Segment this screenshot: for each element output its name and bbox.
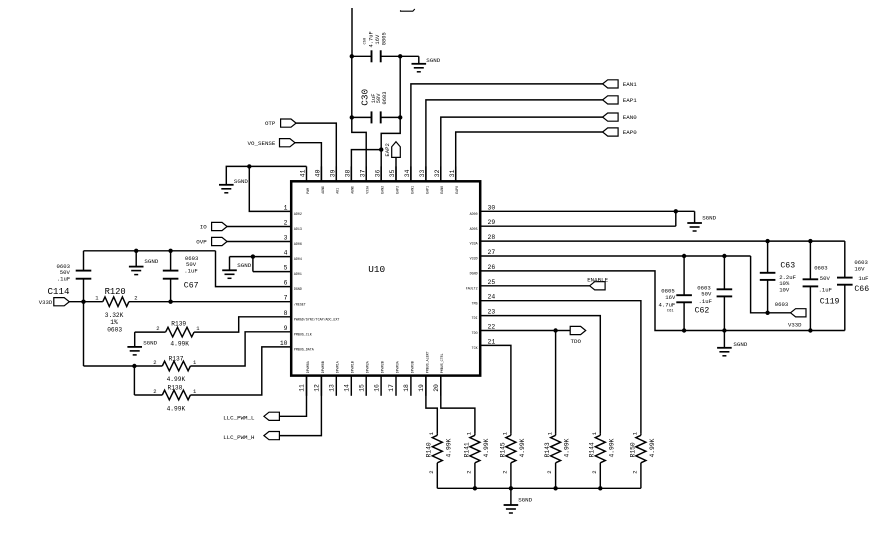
- svg-text:PWM: PWM: [306, 188, 310, 194]
- label C61: [659, 288, 677, 314]
- IC U10 left pin names: [294, 212, 340, 352]
- svg-text:AD02: AD02: [294, 212, 302, 216]
- svg-text:LLC_PWM_L: LLC_PWM_L: [223, 415, 255, 422]
- svg-text:C63: C63: [780, 261, 795, 270]
- wire C58 left lead: [352, 55, 372, 57]
- svg-text:R139: R139: [171, 321, 186, 328]
- svg-text:EAN1: EAN1: [623, 81, 637, 88]
- svg-text:R143: R143: [544, 442, 551, 457]
- svg-text:V33D: V33D: [788, 322, 802, 329]
- node D junction C30 right: [398, 115, 402, 119]
- IC U10 top pin stubs 41-31: [307, 166, 456, 181]
- wire R137 to pin9: [190, 332, 291, 366]
- wire gnd stem C62: [723, 331, 725, 348]
- node junction TDO: [553, 328, 557, 332]
- svg-text:1: 1: [284, 204, 288, 211]
- node junction C62b top: [722, 254, 726, 258]
- wire pin20 to R141: [441, 376, 475, 434]
- wire pin24 to R150: [480, 301, 641, 434]
- node junction pin41 net: [247, 164, 251, 168]
- node junction R141 bottom: [473, 486, 477, 490]
- svg-text:31: 31: [449, 169, 456, 177]
- svg-text:EAP2: EAP2: [395, 186, 399, 194]
- svg-text:4.99K: 4.99K: [608, 438, 615, 457]
- svg-text:C61: C61: [667, 310, 675, 314]
- wire IO to pin2: [227, 226, 291, 228]
- node junction C62a top: [682, 254, 686, 258]
- wire pin12 to LLC_PWM_H: [279, 376, 321, 436]
- svg-text:41: 41: [300, 169, 307, 177]
- svg-text:10: 10: [280, 340, 288, 347]
- svg-text:6: 6: [284, 280, 288, 287]
- svg-text:2: 2: [134, 295, 137, 302]
- flag EAN1: [603, 80, 638, 88]
- wire EAP1 to pin: [426, 100, 603, 181]
- node junction R145 bottom: [509, 486, 513, 490]
- svg-text:4.7uF: 4.7uF: [659, 302, 676, 309]
- svg-text:29: 29: [488, 219, 496, 226]
- flag EAP2: [384, 142, 400, 158]
- wire pin28 rail: [480, 241, 845, 278]
- svg-text:DGND: DGND: [470, 272, 478, 276]
- node junction pin29/30: [674, 209, 678, 213]
- IC U10 top pin numbers 41-31: [300, 169, 456, 177]
- label R141: [463, 431, 490, 474]
- svg-text:50V: 50V: [701, 291, 712, 298]
- wire net EAN2 row: [351, 150, 381, 182]
- svg-text:2: 2: [284, 220, 288, 227]
- svg-text:36: 36: [374, 169, 381, 177]
- resistor R143: [551, 433, 561, 488]
- svg-text:3.32K: 3.32K: [105, 312, 124, 319]
- svg-text:16V: 16V: [854, 266, 865, 273]
- resistor R141: [470, 433, 480, 488]
- svg-text:13: 13: [329, 384, 336, 392]
- node junction C119 bottom: [808, 328, 812, 332]
- svg-text:PMBUS_CTRL: PMBUS_CTRL: [440, 353, 444, 373]
- wire EAP2 stem: [395, 157, 397, 181]
- svg-text:0603: 0603: [382, 92, 388, 105]
- wire pin41 to SGND: [226, 166, 306, 184]
- svg-text:3: 3: [284, 235, 288, 242]
- svg-text:1%: 1%: [110, 319, 118, 326]
- label C66: [854, 259, 869, 294]
- svg-text:TMS: TMS: [472, 301, 478, 305]
- label R137: [153, 355, 197, 383]
- ground SGND bottom: [504, 497, 533, 513]
- svg-text:4.99K: 4.99K: [483, 438, 490, 457]
- svg-text:DPWM0B: DPWM0B: [321, 361, 325, 373]
- svg-text:ENABLE: ENABLE: [587, 276, 608, 283]
- svg-text:0603: 0603: [814, 265, 827, 272]
- svg-text:14: 14: [344, 384, 351, 392]
- svg-text:DPWM2B: DPWM2B: [381, 361, 385, 373]
- svg-text:24: 24: [488, 294, 496, 301]
- label R120: [95, 287, 137, 333]
- svg-text:EAP1: EAP1: [623, 97, 637, 104]
- svg-text:EAP2: EAP2: [384, 143, 391, 156]
- svg-text:2: 2: [632, 470, 639, 473]
- resistor R138: [162, 390, 190, 400]
- svg-text:4.99K: 4.99K: [564, 438, 571, 457]
- flag IO: [200, 222, 227, 230]
- IC U10 left pin numbers 1-10: [280, 204, 288, 347]
- svg-text:12: 12: [314, 384, 321, 392]
- svg-text:DPWM3B: DPWM3B: [410, 361, 414, 373]
- capacitor C67: [163, 251, 179, 302]
- svg-text:C58: C58: [363, 37, 367, 45]
- svg-text:2: 2: [153, 388, 156, 395]
- wire to SGND right: [676, 211, 695, 223]
- svg-text:16V: 16V: [375, 34, 381, 44]
- svg-text:OVP: OVP: [196, 239, 207, 246]
- svg-text:1uF: 1uF: [858, 275, 868, 282]
- wire EAN0 to pin: [441, 117, 603, 181]
- IC U10 right pin names: [466, 212, 478, 350]
- resistor R144: [595, 433, 605, 488]
- svg-text:DPWM3A: DPWM3A: [395, 361, 399, 373]
- svg-text:AGND: AGND: [351, 186, 355, 194]
- flag VO_SENSE: [248, 139, 295, 147]
- svg-text:V33A: V33A: [366, 186, 370, 194]
- label R145: [499, 431, 526, 474]
- svg-text:5: 5: [284, 265, 288, 272]
- wire pin21 to R145: [480, 345, 511, 433]
- resistor R137: [134, 361, 190, 371]
- svg-text:C67: C67: [184, 282, 199, 291]
- svg-text:LLC_PWM_H: LLC_PWM_H: [223, 434, 255, 441]
- wire to TDO flag: [556, 330, 571, 332]
- svg-text:V33A: V33A: [470, 242, 478, 246]
- svg-text:2: 2: [153, 359, 156, 366]
- capacitor C114: [76, 251, 92, 302]
- svg-text:2: 2: [502, 470, 509, 473]
- wire top feed: [351, 8, 353, 56]
- node junction pin36 tap: [379, 147, 383, 151]
- wire to R138: [134, 366, 162, 395]
- svg-text:4: 4: [284, 250, 288, 257]
- svg-text:R145: R145: [499, 442, 506, 457]
- svg-text:PMBUS_ALERT: PMBUS_ALERT: [425, 351, 429, 373]
- label C58: [363, 31, 387, 47]
- flag ENABLE: [587, 276, 608, 290]
- wire R138 to pin10: [190, 347, 291, 395]
- svg-text:25: 25: [488, 279, 496, 286]
- ground SGND right: [687, 215, 716, 231]
- svg-text:2: 2: [156, 325, 159, 332]
- flag OTP: [265, 119, 296, 127]
- svg-text:C114: C114: [48, 286, 71, 297]
- svg-text:SGND: SGND: [518, 497, 532, 504]
- svg-text:SGND: SGND: [143, 340, 157, 347]
- node junction C63 top: [765, 239, 769, 243]
- node junction C119 top: [808, 239, 812, 243]
- svg-text:30: 30: [488, 204, 496, 211]
- svg-text:DPWM1A: DPWM1A: [336, 361, 340, 373]
- svg-text:AD04: AD04: [294, 257, 302, 261]
- resistor R145: [506, 433, 516, 488]
- svg-text:SGND: SGND: [234, 178, 248, 185]
- svg-text:2: 2: [428, 470, 435, 473]
- capacitor C119: [803, 241, 819, 330]
- svg-text:TDO: TDO: [571, 338, 582, 345]
- node junction C67 top: [168, 249, 172, 253]
- node junction C62a bottom: [682, 328, 686, 332]
- wire pin4 gnd stem: [229, 257, 231, 271]
- svg-text:26: 26: [488, 264, 496, 271]
- svg-text:39: 39: [330, 169, 337, 177]
- svg-text:AGND: AGND: [321, 186, 325, 194]
- svg-text:/RESET: /RESET: [294, 302, 306, 306]
- svg-text:EAN2: EAN2: [381, 186, 385, 194]
- svg-text:R141: R141: [463, 442, 470, 457]
- svg-text:R137: R137: [169, 355, 184, 362]
- svg-text:R138: R138: [168, 384, 183, 391]
- resistor R120: [103, 297, 129, 307]
- svg-text:EAP0: EAP0: [455, 186, 459, 194]
- svg-text:DPWM0A: DPWM0A: [306, 361, 310, 373]
- node C junction C30 left: [350, 115, 354, 119]
- svg-text:PWRGD/SYNC/TCAP/ADC_EXT: PWRGD/SYNC/TCAP/ADC_EXT: [294, 317, 340, 321]
- IC U10 bottom pin stubs 11-20: [307, 376, 441, 396]
- wire top rail C114/C67: [84, 250, 216, 252]
- svg-text:38: 38: [345, 169, 352, 177]
- svg-text:TDO: TDO: [472, 331, 478, 335]
- wire pin26 to ground rail: [480, 271, 845, 331]
- IC U10 top pin names: [306, 186, 459, 194]
- label C63: [775, 261, 796, 308]
- svg-text:VO_SENSE: VO_SENSE: [248, 140, 276, 147]
- svg-text:37: 37: [359, 169, 366, 177]
- cut-off symbol at top edge: [401, 9, 415, 11]
- wire rail to pin6: [216, 251, 292, 287]
- node junction pin4: [251, 254, 255, 258]
- svg-text:AD13: AD13: [294, 227, 302, 231]
- IC U10 right pin numbers 30-21: [488, 204, 496, 345]
- node junction R137 tap: [132, 364, 136, 368]
- capacitor C66: [837, 278, 853, 331]
- label R138: [153, 384, 197, 412]
- svg-text:23: 23: [488, 309, 496, 316]
- svg-text:A01: A01: [336, 188, 340, 194]
- svg-text:C66: C66: [854, 285, 869, 294]
- svg-text:SGND: SGND: [426, 57, 440, 64]
- flag EAP1: [603, 96, 638, 104]
- svg-text:EAP1: EAP1: [425, 186, 429, 194]
- svg-text:TDI: TDI: [472, 316, 478, 320]
- wire bottom rail: [437, 487, 641, 489]
- svg-text:2: 2: [546, 470, 553, 473]
- svg-text:V33D: V33D: [470, 257, 478, 261]
- svg-text:7: 7: [284, 295, 288, 302]
- svg-text:4.99K: 4.99K: [445, 438, 452, 457]
- svg-text:0603: 0603: [775, 301, 788, 308]
- flag V33D left: [39, 298, 70, 306]
- node junction R144 bottom: [598, 486, 602, 490]
- svg-text:EAN0: EAN0: [623, 114, 637, 121]
- wire rail gnd stem bottom: [510, 488, 512, 505]
- capacitor C63: [760, 241, 776, 313]
- svg-text:9: 9: [284, 325, 288, 332]
- svg-text:0603: 0603: [107, 327, 122, 334]
- svg-text:34: 34: [404, 169, 411, 177]
- svg-text:DPWM1B: DPWM1B: [351, 361, 355, 373]
- IC U10 body: [291, 181, 480, 375]
- svg-text:.1uF: .1uF: [57, 275, 70, 282]
- svg-text:2: 2: [591, 470, 598, 473]
- svg-text:16: 16: [373, 384, 380, 392]
- label R140: [426, 431, 453, 474]
- label C114: [48, 263, 71, 297]
- svg-text:R140: R140: [426, 442, 433, 457]
- wire C30 left column: [352, 56, 366, 181]
- svg-text:EAP0: EAP0: [623, 129, 637, 136]
- svg-text:27: 27: [488, 249, 496, 256]
- wire pin23 to R144: [480, 316, 600, 434]
- wire pin30 net: [480, 210, 676, 212]
- svg-text:PMBUS_DATA: PMBUS_DATA: [294, 348, 314, 352]
- node junction C63 bottom: [765, 311, 769, 315]
- wire V33D column down: [84, 302, 135, 366]
- svg-text:.1uF: .1uF: [819, 286, 832, 293]
- label C30: [359, 89, 388, 106]
- svg-text:8: 8: [284, 310, 288, 317]
- flag EAP0: [603, 128, 638, 136]
- svg-text:22: 22: [488, 324, 496, 331]
- svg-text:R120: R120: [105, 287, 126, 297]
- svg-text:EAN0: EAN0: [440, 186, 444, 194]
- node B junction C58 right: [398, 54, 402, 58]
- svg-text:50V: 50V: [820, 275, 831, 282]
- svg-text:AD06: AD06: [294, 242, 302, 246]
- svg-text:15: 15: [358, 384, 365, 392]
- flag LLC_PWM_H: [223, 432, 279, 441]
- node junction rail SGND: [134, 249, 138, 253]
- svg-text:28: 28: [488, 234, 496, 241]
- svg-text:R150: R150: [629, 442, 636, 457]
- svg-text:OTP: OTP: [265, 120, 276, 127]
- svg-text:19: 19: [418, 384, 425, 392]
- IC U10 bottom pin numbers 11-20: [299, 384, 440, 392]
- wire R120 to pin7: [129, 301, 291, 303]
- wire pin4-pin5 riser: [253, 257, 291, 272]
- svg-text:16V: 16V: [665, 294, 676, 301]
- wire R139 gnd stem: [135, 332, 166, 347]
- resistor R140: [432, 433, 442, 488]
- svg-text:.1uF: .1uF: [184, 268, 197, 275]
- svg-text:TCK: TCK: [472, 346, 478, 350]
- svg-text:33: 33: [419, 169, 426, 177]
- ground SGND pin4/5: [222, 262, 252, 279]
- wire EAP0 to pin: [456, 132, 603, 181]
- ground SGND R139: [127, 340, 157, 355]
- svg-text:IO: IO: [200, 224, 207, 231]
- svg-text:AD01: AD01: [294, 272, 302, 276]
- svg-text:C30: C30: [359, 89, 370, 106]
- wire EAN1 to pin: [411, 84, 603, 181]
- ground SGND pin41: [219, 178, 248, 193]
- svg-text:4.99K: 4.99K: [170, 341, 189, 348]
- ground SGND top: [412, 57, 441, 72]
- wire R139 to pin8: [194, 317, 291, 332]
- wire V33D to R120: [69, 301, 103, 303]
- flag TDO: [570, 326, 586, 345]
- capacitor C61: [676, 256, 692, 331]
- wire pin29 riser: [480, 211, 676, 226]
- svg-text:18: 18: [403, 384, 410, 392]
- svg-text:AD05: AD05: [470, 227, 478, 231]
- svg-text:SGND: SGND: [237, 262, 251, 269]
- label R150: [629, 431, 656, 474]
- svg-text:10V: 10V: [779, 286, 790, 293]
- svg-text:AD00: AD00: [470, 212, 478, 216]
- svg-text:40: 40: [315, 169, 322, 177]
- capacitor C58: [372, 50, 401, 62]
- wire to SGND top: [400, 56, 419, 64]
- capacitor C30: [352, 111, 400, 123]
- svg-text:4.99K: 4.99K: [519, 438, 526, 457]
- wire C30 right column: [381, 56, 400, 181]
- flag LLC_PWM_L: [223, 412, 279, 421]
- wire VO_SENSE to pin40: [295, 143, 321, 182]
- svg-text:4.99K: 4.99K: [649, 438, 656, 457]
- svg-text:35: 35: [389, 169, 396, 177]
- svg-text:C62: C62: [695, 306, 710, 315]
- wire pin27 rail: [480, 256, 790, 313]
- wire OVP to pin3: [227, 241, 291, 243]
- node junction R143 bottom: [553, 486, 557, 490]
- label R139: [156, 321, 200, 348]
- label R144: [589, 431, 616, 474]
- svg-text:FAULT2: FAULT2: [466, 286, 478, 290]
- capacitor C62: [717, 256, 733, 331]
- wire OTP to pin39: [296, 123, 336, 181]
- svg-text:U10: U10: [368, 264, 385, 275]
- svg-text:32: 32: [434, 169, 441, 177]
- svg-text:C119: C119: [820, 297, 840, 306]
- node junction C67 bottom: [168, 300, 172, 304]
- svg-text:20: 20: [433, 384, 440, 392]
- label C67: [184, 255, 199, 291]
- svg-text:.1uF: .1uF: [699, 298, 712, 305]
- resistor R139: [166, 327, 195, 337]
- node junction C62b bottom: [722, 328, 726, 332]
- svg-text:4.99K: 4.99K: [167, 376, 186, 383]
- svg-text:DPWM2A: DPWM2A: [366, 361, 370, 373]
- wire pin4 net: [230, 256, 292, 258]
- label R143: [544, 431, 571, 474]
- svg-text:4.7uF: 4.7uF: [369, 31, 375, 47]
- flag OVP: [196, 237, 227, 245]
- svg-text:EAN1: EAN1: [410, 186, 414, 194]
- svg-text:SGND: SGND: [144, 258, 158, 265]
- svg-text:PMBUS_CLK: PMBUS_CLK: [294, 332, 312, 336]
- wire pin19 to R140: [426, 376, 437, 434]
- label C119: [814, 265, 839, 307]
- ground SGND C62: [717, 341, 748, 356]
- wire pin25 to ENABLE: [480, 285, 589, 287]
- wire rail gnd stem: [135, 251, 137, 267]
- ground SGND rail: [129, 258, 159, 274]
- svg-text:DGND: DGND: [294, 287, 302, 291]
- svg-text:R144: R144: [589, 442, 596, 457]
- svg-text:11: 11: [299, 384, 306, 392]
- svg-text:SGND: SGND: [702, 215, 716, 222]
- svg-text:2: 2: [466, 470, 473, 473]
- label C62: [695, 284, 712, 315]
- node A junction C58 left: [350, 54, 354, 58]
- svg-text:SGND: SGND: [733, 341, 747, 348]
